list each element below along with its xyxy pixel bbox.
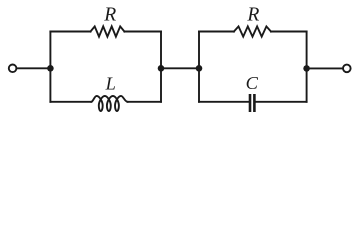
capacitor C plates: [250, 95, 254, 110]
svg-text:C: C: [246, 73, 259, 93]
wire left loop top right segment: [124, 31, 161, 33]
resistor R (left): [91, 26, 125, 36]
svg-text:L: L: [105, 74, 116, 94]
terminal right (open circle): [343, 65, 351, 73]
wire right terminal lead: [307, 67, 343, 69]
svg-text:R: R: [246, 5, 259, 26]
wire left loop right vertical: [160, 32, 162, 102]
resistor R (right): [234, 26, 271, 36]
wire right loop top right segment: [271, 31, 307, 33]
node A junction dot: [47, 65, 54, 72]
terminal left (open circle): [9, 65, 17, 73]
node C junction dot: [196, 65, 203, 72]
wire left loop top left segment: [50, 31, 90, 33]
wire right loop bottom left segment: [199, 101, 249, 103]
node B junction dot: [158, 65, 165, 72]
svg-text:R: R: [103, 5, 116, 26]
wire right loop top left segment: [199, 31, 234, 33]
wire left loop left vertical: [49, 32, 51, 102]
wire middle connecting segment: [161, 67, 199, 69]
wire right loop right vertical: [306, 32, 308, 102]
wire left terminal lead: [17, 67, 50, 69]
inductor L: [91, 96, 127, 111]
wire left loop bottom left segment: [50, 101, 91, 103]
wire right loop left vertical: [198, 32, 200, 102]
wire left loop bottom right segment: [128, 101, 162, 103]
wire right loop bottom right segment: [256, 101, 307, 103]
node D junction dot: [303, 65, 310, 72]
